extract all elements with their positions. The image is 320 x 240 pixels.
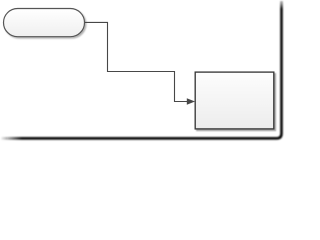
process rectangle [195,72,274,129]
page edge shadow (right + bottom frame bands) [1,1,282,138]
arrowhead [187,98,195,104]
terminator (stadium) shape [4,9,85,37]
connector wire [85,22,187,101]
bottom shadow band with rounded corner [1,134,282,139]
right shadow band [280,1,283,134]
